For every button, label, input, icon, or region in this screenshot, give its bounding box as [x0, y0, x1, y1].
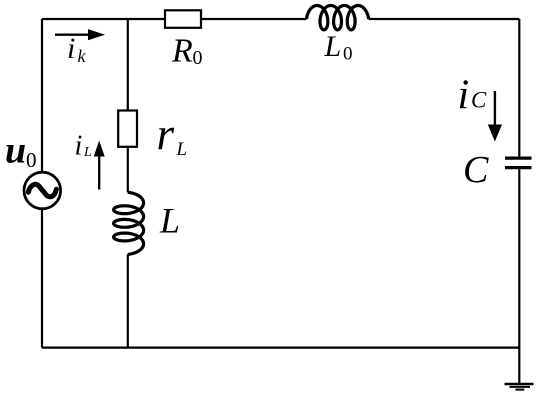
svg-text:u: u	[5, 130, 26, 172]
svg-text:L: L	[324, 30, 342, 63]
svg-text:r: r	[157, 109, 175, 159]
svg-text:k: k	[78, 46, 87, 66]
svg-text:i: i	[458, 73, 470, 119]
svg-text:0: 0	[193, 47, 203, 69]
svg-text:i: i	[75, 130, 83, 161]
svg-text:L: L	[176, 139, 188, 160]
svg-text:0: 0	[26, 148, 37, 172]
svg-text:0: 0	[343, 44, 353, 65]
svg-text:i: i	[67, 32, 75, 65]
svg-text:L: L	[83, 145, 92, 160]
svg-text:C: C	[463, 149, 489, 191]
svg-text:C: C	[471, 88, 487, 113]
svg-text:R: R	[171, 32, 193, 69]
svg-text:L: L	[159, 201, 180, 241]
